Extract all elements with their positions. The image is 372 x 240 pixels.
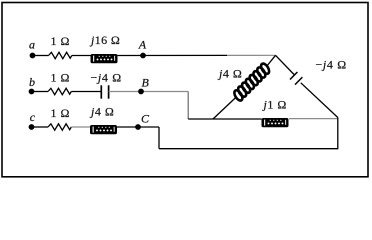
svg-text:C: C	[141, 111, 150, 125]
svg-text:−j4 Ω: −j4 Ω	[316, 58, 347, 72]
svg-text:1 Ω: 1 Ω	[51, 70, 70, 84]
svg-text:a: a	[29, 37, 35, 51]
svg-text:b: b	[29, 75, 35, 89]
svg-text:j4 Ω: j4 Ω	[217, 67, 242, 81]
svg-text:1 Ω: 1 Ω	[51, 34, 70, 48]
svg-text:j16 Ω: j16 Ω	[89, 33, 120, 47]
svg-text:j1 Ω: j1 Ω	[262, 98, 287, 112]
svg-text:1 Ω: 1 Ω	[51, 106, 70, 120]
svg-text:B: B	[142, 76, 150, 90]
svg-text:A: A	[138, 38, 147, 52]
svg-text:c: c	[30, 110, 36, 124]
svg-text:−j4 Ω: −j4 Ω	[91, 70, 122, 84]
svg-text:j4 Ω: j4 Ω	[89, 105, 114, 119]
